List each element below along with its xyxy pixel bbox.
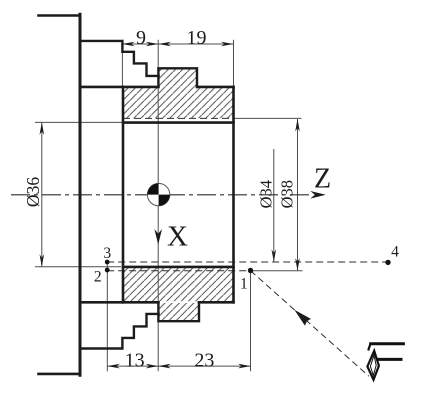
svg-text:3: 3 bbox=[103, 245, 111, 262]
svg-text:9: 9 bbox=[136, 27, 146, 49]
svg-text:23: 23 bbox=[194, 350, 214, 372]
svg-text:X: X bbox=[167, 221, 188, 253]
svg-text:1: 1 bbox=[240, 276, 248, 293]
svg-text:Z: Z bbox=[314, 164, 331, 195]
svg-text:2: 2 bbox=[94, 268, 102, 285]
svg-text:Ø38: Ø38 bbox=[278, 180, 297, 208]
svg-text:19: 19 bbox=[187, 27, 207, 49]
svg-text:Ø34: Ø34 bbox=[257, 180, 276, 208]
svg-text:4: 4 bbox=[391, 244, 399, 261]
svg-text:Ø36: Ø36 bbox=[23, 177, 43, 207]
svg-text:13: 13 bbox=[125, 350, 145, 372]
